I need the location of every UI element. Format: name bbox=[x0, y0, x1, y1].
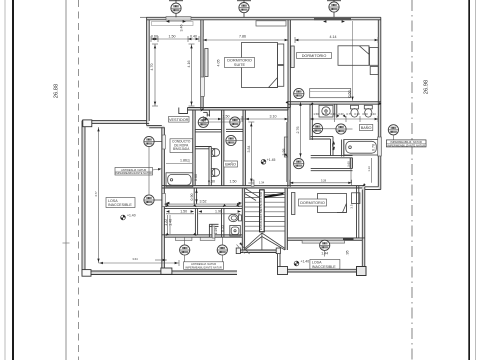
svg-text:INACCESIBLE: INACCESIBLE bbox=[108, 203, 132, 207]
label DORMITORIO 3 bbox=[299, 199, 327, 206]
window sill top wall 1 bbox=[166, 17, 191, 21]
dim dorm3 top bbox=[290, 182, 352, 184]
svg-text:0.55: 0.55 bbox=[220, 225, 224, 232]
dim suite top bbox=[203, 39, 288, 41]
stair bottom wall bbox=[237, 249, 280, 251]
svg-text:B/MOJADA: B/MOJADA bbox=[173, 147, 190, 151]
right page border thin line bbox=[475, 0, 477, 360]
svg-text:SUITE: SUITE bbox=[234, 63, 246, 67]
dim hall vertical bbox=[250, 122, 252, 183]
svg-text:3.84: 3.84 bbox=[247, 145, 251, 152]
dim vestidor vertical 2 bbox=[191, 44, 193, 106]
dim hall top bbox=[203, 118, 288, 120]
svg-text:4.05: 4.05 bbox=[217, 60, 221, 67]
svg-text:1.50: 1.50 bbox=[169, 35, 176, 39]
dorm2 axis dim line bbox=[352, 21, 354, 101]
svg-text:0.60: 0.60 bbox=[362, 112, 368, 116]
suite bottom wall notch bbox=[179, 108, 188, 114]
svg-text:0.60: 0.60 bbox=[347, 91, 351, 98]
svg-text:2.76: 2.76 bbox=[296, 127, 300, 134]
svg-text:IMPERMEABILIZ. NATUR: IMPERMEABILIZ. NATUR bbox=[391, 140, 422, 144]
lower rooms window leaf 2 bbox=[200, 237, 215, 240]
label VESTIDOR bbox=[169, 117, 190, 123]
suite bed bbox=[242, 43, 284, 88]
lower rooms bottom wall bbox=[162, 234, 243, 236]
bath corridor east wall bbox=[242, 110, 244, 185]
svg-text:1.50: 1.50 bbox=[180, 210, 187, 214]
svg-text:0.30: 0.30 bbox=[330, 112, 336, 116]
svg-text:+1.40: +1.40 bbox=[127, 214, 136, 218]
label BANO right bbox=[359, 125, 372, 131]
left wing wall window leaf upper bbox=[162, 135, 165, 149]
label LOSA INACCESIBLE terrace bbox=[106, 198, 135, 208]
svg-text:4.70: 4.70 bbox=[150, 64, 154, 71]
marker M8 stem bbox=[236, 140, 243, 142]
stair door leaf bbox=[251, 180, 254, 186]
svg-text:3.98: 3.98 bbox=[282, 149, 286, 156]
label DORMITORIO 2 bbox=[297, 53, 332, 59]
left wing west wall bbox=[161, 127, 163, 271]
wc lower: washbasin bbox=[230, 226, 241, 237]
bath small divider bbox=[208, 147, 210, 186]
dim vestidor vertical 1 bbox=[154, 44, 156, 106]
dimension lines bbox=[99, 36, 379, 266]
stairwell right wall bbox=[284, 188, 286, 250]
svg-text:IMPERMEABILIZANTE NATUR: IMPERMEABILIZANTE NATUR bbox=[387, 143, 425, 147]
mid horizontal wall full bbox=[162, 185, 365, 187]
dorm3 bottom wall bbox=[287, 237, 364, 239]
lower room wall stub bbox=[193, 188, 195, 204]
svg-text:26.88: 26.88 bbox=[54, 84, 60, 99]
stair diagonals lower bbox=[245, 188, 285, 250]
marker M5 left wall bbox=[144, 195, 154, 205]
svg-text:+1.45: +1.45 bbox=[267, 158, 276, 162]
terrace parapet bottom bbox=[82, 274, 237, 276]
dim right verticals bbox=[350, 158, 352, 183]
bath right: bathtub bbox=[344, 140, 379, 156]
exterior wall right lower bbox=[364, 187, 366, 272]
svg-text:LOSA: LOSA bbox=[108, 199, 118, 203]
dorm3 bed bbox=[318, 193, 360, 213]
svg-text:3.46: 3.46 bbox=[180, 25, 184, 32]
marker M14 bottom strip bbox=[180, 245, 190, 255]
dim hall right vertical bbox=[286, 122, 288, 182]
svg-text:1.96: 1.96 bbox=[215, 210, 222, 214]
dorm2 bed bbox=[338, 46, 378, 75]
window dorm3 bottom bbox=[302, 240, 345, 243]
window leaf right wall bbox=[378, 137, 382, 156]
svg-text:LOSA: LOSA bbox=[312, 261, 322, 265]
marker M8 hall bbox=[226, 135, 236, 145]
vestidor bottom jog wall bbox=[147, 125, 162, 127]
property boundary solid line left bbox=[65, 0, 67, 360]
marker M6 hall bbox=[198, 117, 208, 127]
terrace parapet left bbox=[81, 121, 83, 275]
terrace parapet corner block top bbox=[83, 120, 92, 127]
svg-text:0.70: 0.70 bbox=[372, 144, 376, 151]
lower rooms divider vertical bbox=[194, 208, 196, 234]
bath corridor top wall bbox=[226, 128, 243, 130]
svg-text:BAÑO: BAÑO bbox=[225, 162, 236, 167]
wall fills bbox=[84, 17, 381, 272]
suite top closet bbox=[256, 21, 286, 26]
left wing bottom tick line bbox=[155, 259, 167, 261]
svg-text:1.24: 1.24 bbox=[214, 228, 218, 235]
svg-text:0.75: 0.75 bbox=[322, 112, 328, 116]
svg-text:IMPERMEABILIZANTE NATUR: IMPERMEABILIZANTE NATUR bbox=[185, 265, 222, 269]
marker M16 bottom right strip bbox=[320, 240, 330, 250]
svg-text:DORMITORIO: DORMITORIO bbox=[302, 54, 327, 58]
level symbol +1.45 hall bbox=[261, 158, 275, 164]
label bottom strip finish note bbox=[184, 262, 224, 270]
marker axis stems left wall bbox=[154, 141, 162, 143]
duct wall step by suite door bbox=[203, 109, 209, 111]
svg-text:0.30: 0.30 bbox=[354, 112, 360, 116]
label LOSA INACCESIBLE bottom right bbox=[310, 260, 340, 270]
svg-text:1.50: 1.50 bbox=[313, 112, 319, 116]
svg-text:1.50: 1.50 bbox=[223, 115, 230, 119]
svg-text:ESCALERA METALICA S/D: ESCALERA METALICA S/D bbox=[259, 191, 263, 230]
svg-text:3.5: 3.5 bbox=[349, 204, 353, 209]
label CONDUCTO DE ROPA bbox=[170, 139, 193, 153]
level symbol +1.40 terrace bbox=[121, 214, 136, 220]
dorm3 east closet wall bbox=[356, 186, 358, 238]
left page border thin line bbox=[4, 0, 6, 360]
svg-text:1.46: 1.46 bbox=[169, 219, 173, 226]
marker M4 left wall bbox=[144, 136, 154, 146]
dorm3 window closet leaf bbox=[292, 193, 295, 215]
marker M11 right outside bbox=[388, 125, 398, 135]
stair diagonals upper bbox=[245, 188, 260, 198]
svg-text:0.60: 0.60 bbox=[151, 35, 158, 39]
interior wall vestidor/suite vertical bbox=[200, 20, 202, 110]
marker M9 M10 axis stems bbox=[312, 128, 322, 130]
dim hall axis vertical bbox=[300, 102, 302, 158]
exterior wall right upper bbox=[380, 17, 382, 189]
wall left of losa strip right bbox=[277, 253, 279, 273]
stair bold arrow bbox=[265, 194, 284, 197]
window hall west wall bbox=[284, 137, 287, 157]
marker M13 corner bbox=[294, 88, 304, 98]
wc door leaf bbox=[212, 226, 215, 238]
marker M12 hall right bbox=[294, 159, 304, 169]
svg-text:0.43: 0.43 bbox=[370, 112, 376, 116]
interior wall suite/dorm2 vertical bbox=[287, 20, 289, 110]
marker M1 top bbox=[171, 3, 181, 13]
svg-text:BAÑO: BAÑO bbox=[361, 125, 372, 130]
suite bottom wall bbox=[188, 107, 291, 109]
bath small east wall bbox=[221, 110, 223, 185]
svg-text:.60: .60 bbox=[206, 113, 210, 117]
wc lower: toilet bbox=[229, 214, 242, 221]
svg-text:26.98: 26.98 bbox=[424, 80, 430, 95]
svg-text:3.64: 3.64 bbox=[132, 257, 138, 261]
svg-text:1.13: 1.13 bbox=[367, 166, 371, 172]
svg-text:INACCESIBLE: INACCESIBLE bbox=[312, 265, 336, 269]
lower rooms interior wall horizontal bbox=[164, 205, 242, 207]
corner block bottom right of losa strip bbox=[357, 267, 367, 276]
lower rooms window leaf 1 bbox=[175, 237, 192, 240]
bath interior divider 1 bbox=[334, 104, 336, 117]
terrace parapet corner block bottom bbox=[82, 270, 91, 277]
vestidor top closet band bbox=[152, 22, 194, 26]
svg-text:4.14: 4.14 bbox=[330, 35, 337, 39]
bath corridor wall bbox=[309, 104, 311, 140]
label BANO small bbox=[224, 161, 238, 167]
svg-text:VESTIDOR: VESTIDOR bbox=[169, 118, 189, 122]
left wing wall window leaf lower bbox=[162, 194, 165, 207]
svg-text:.95: .95 bbox=[346, 251, 350, 256]
corner block left end of bottom wall bbox=[278, 267, 288, 275]
left page border thick wall bbox=[12, 0, 14, 360]
svg-text:1.44: 1.44 bbox=[321, 252, 328, 256]
svg-text:1.34: 1.34 bbox=[259, 181, 265, 185]
stairwell left wall bbox=[241, 188, 243, 250]
stair stringer band bbox=[260, 190, 265, 232]
bath small: toilet bbox=[211, 149, 219, 157]
bath top wall right bbox=[288, 101, 381, 103]
suite closet door leaf bbox=[205, 49, 208, 77]
marker M2 top bbox=[239, 3, 249, 13]
bath bottom wall 2 bbox=[311, 167, 353, 169]
dim terrace vertical bbox=[98, 127, 100, 263]
dim bath top tiny bbox=[310, 118, 378, 120]
svg-text:5.60: 5.60 bbox=[347, 161, 351, 167]
bath right: vanity bbox=[319, 105, 333, 117]
tick on property line bbox=[63, 242, 70, 244]
dimension arrowheads bbox=[97, 20, 381, 264]
boundary dash-dot line right bbox=[411, 0, 413, 360]
terrace parapet top bbox=[82, 120, 147, 122]
dimension texts bbox=[150, 25, 376, 256]
dim vestidor top bbox=[151, 38, 199, 40]
lower rooms wc wall bbox=[221, 208, 223, 237]
svg-text:3.10: 3.10 bbox=[270, 115, 277, 119]
marker M3 top bbox=[329, 2, 339, 12]
corner block bottom left wing bbox=[161, 268, 172, 274]
dorm2 bottom closet bbox=[310, 89, 351, 98]
bath tub divider bbox=[341, 140, 343, 157]
dim dorm2 top bbox=[295, 39, 378, 41]
svg-text:.52: .52 bbox=[187, 159, 191, 164]
bath small: bathtub bbox=[166, 173, 193, 187]
bath small top wall bbox=[195, 129, 221, 131]
svg-text:+1.40: +1.40 bbox=[301, 260, 310, 264]
dim terrace bottom bbox=[99, 262, 180, 264]
svg-text:3.52: 3.52 bbox=[200, 200, 207, 204]
exterior wall bottom right bbox=[278, 268, 365, 270]
stair corner brace bbox=[241, 245, 250, 255]
top wall left extension bbox=[140, 16, 147, 18]
bath right: toilet bbox=[351, 105, 359, 117]
svg-text:3.28: 3.28 bbox=[321, 178, 327, 182]
level symbol +1.40 bottom bbox=[294, 260, 309, 266]
svg-text:0.50: 0.50 bbox=[208, 180, 215, 184]
exterior wall top bbox=[147, 16, 381, 18]
exterior step wall right bbox=[365, 186, 379, 188]
svg-text:4.16: 4.16 bbox=[187, 61, 191, 68]
dim line above tub small bath bbox=[166, 163, 192, 165]
svg-text:DORMITORIO: DORMITORIO bbox=[300, 201, 325, 205]
right page border thick wall bbox=[468, 0, 470, 360]
svg-text:IMPERMEABILIZANTE NATUR: IMPERMEABILIZANTE NATUR bbox=[115, 171, 152, 175]
bath bottom wall 1 bbox=[311, 155, 353, 157]
marker M10 bath bbox=[336, 124, 346, 134]
stair bbox=[245, 193, 285, 231]
vestidor/bath wall vertical bbox=[192, 110, 194, 186]
svg-text:7.86: 7.86 bbox=[239, 35, 246, 39]
stair landing line bbox=[264, 193, 285, 195]
exterior wall left upper bbox=[146, 17, 148, 125]
bath shower closet walls bbox=[311, 137, 353, 169]
dim lower rooms bbox=[164, 203, 240, 205]
dorm2 closet door leaf bbox=[291, 46, 294, 68]
svg-text:ANTIDESLIZ. NATUR: ANTIDESLIZ. NATUR bbox=[191, 262, 216, 266]
svg-text:0.60: 0.60 bbox=[194, 174, 198, 181]
window sill top wall 3 dark bbox=[314, 18, 351, 20]
svg-text:0.75: 0.75 bbox=[346, 112, 352, 116]
lower rooms second divider bbox=[208, 224, 210, 237]
label right outside finish note bbox=[386, 140, 426, 148]
stair bottom wall end blocks bbox=[236, 248, 240, 254]
svg-text:1.50: 1.50 bbox=[230, 180, 237, 184]
label terrace finish note bbox=[115, 168, 162, 176]
vestidor right wall leaf bbox=[201, 77, 205, 96]
bath small: bidet bbox=[211, 169, 219, 177]
marker M9 bath bbox=[312, 123, 322, 133]
svg-text:4.77: 4.77 bbox=[94, 191, 98, 197]
marker M7 hall bbox=[230, 117, 240, 127]
axis line between hall markers bbox=[208, 121, 229, 123]
svg-text:ANTIDESLIZ. NATUR: ANTIDESLIZ. NATUR bbox=[121, 168, 146, 172]
bath small top short wall bbox=[195, 146, 211, 148]
axis line between left wall markers bbox=[148, 147, 150, 195]
svg-text:1.75: 1.75 bbox=[332, 143, 336, 150]
svg-text:0.40: 0.40 bbox=[190, 35, 197, 39]
label DORMITORIO SUITE bbox=[225, 58, 255, 68]
hall west wall bbox=[287, 104, 289, 187]
boundary dashed line left bbox=[78, 0, 80, 360]
svg-text:0.60: 0.60 bbox=[338, 112, 344, 116]
bath right: bidet bbox=[364, 105, 372, 117]
marker M15 bottom strip bbox=[217, 245, 227, 255]
svg-text:0.90: 0.90 bbox=[190, 194, 194, 201]
dark wall pier dorm3 bottom bbox=[343, 238, 354, 241]
